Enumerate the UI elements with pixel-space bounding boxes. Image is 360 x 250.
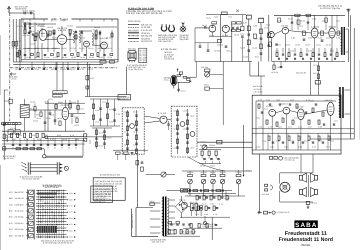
svg-text:5k6 2,2M: 5k6 2,2M — [63, 138, 67, 141]
svg-text:100 5k6: 100 5k6 — [200, 164, 205, 167]
EM84 feed arrow — [189, 80, 191, 82]
tube Rö7 EBF89 IF — [311, 28, 318, 38]
output extra components — [268, 136, 270, 140]
svg-text:470 1M: 470 1M — [10, 127, 17, 130]
svg-text:220: 220 — [69, 229, 73, 232]
wire AM bottom rail — [195, 61, 252, 63]
speaker top rail — [280, 172, 313, 174]
legend row 2 sample wire — [128, 26, 139, 28]
svg-text:8,2 220: 8,2 220 — [70, 47, 76, 50]
svg-text:1n5 4,7k: 1n5 4,7k — [336, 19, 340, 22]
trimmer capacitors tuner input — [24, 26, 27, 28]
electrolytic capacitor C50a — [190, 204, 193, 211]
FM tuner enclosure box — [21, 18, 48, 20]
wire verticals to ratio detector labels — [56, 62, 58, 91]
svg-text:12k 6,8k: 12k 6,8k — [312, 17, 316, 20]
svg-text:Netzkabel 220V: Netzkabel 220V — [131, 213, 134, 228]
svg-text:33k 0,47: 33k 0,47 — [99, 144, 104, 147]
wire pots bottom rail — [185, 195, 245, 197]
legend row 3 sample wire — [128, 29, 139, 31]
svg-text:470 100: 470 100 — [44, 134, 48, 137]
svg-text:47p 220: 47p 220 — [190, 114, 195, 117]
svg-text:100 6,8k: 100 6,8k — [124, 110, 129, 113]
wire EM84 feed from right — [196, 62, 198, 78]
svg-text:EC92 100: EC92 100 — [285, 43, 290, 46]
svg-text:470 100: 470 100 — [298, 125, 302, 128]
svg-text:5k6 8,2: 5k6 8,2 — [255, 55, 259, 58]
svg-text:25µ 8,2: 25µ 8,2 — [278, 125, 282, 128]
IF interstage components — [303, 31, 306, 35]
wire cable to module I — [87, 136, 122, 138]
svg-text:560 560: 560 560 — [217, 44, 223, 47]
tuner lower internal wire — [23, 48, 60, 50]
svg-text:FM - Tuner: FM - Tuner — [52, 17, 69, 21]
svg-text:47p 47p: 47p 47p — [71, 101, 76, 104]
loudspeaker horn bottom-right — [315, 190, 318, 195]
svg-text:560 EC92: 560 EC92 — [264, 26, 268, 29]
wire IF bus line 1 — [13, 61, 118, 63]
capacitor row right of T2 — [232, 26, 234, 28]
svg-text:2,2M: 2,2M — [318, 36, 323, 39]
svg-text:470 5k6: 470 5k6 — [262, 193, 269, 196]
svg-text:6,8k 2,2M: 6,8k 2,2M — [99, 58, 106, 61]
svg-text:470 25µ: 470 25µ — [46, 117, 51, 120]
svg-text:2,2M: 2,2M — [308, 49, 313, 52]
tuner mid extra parts — [49, 31, 51, 35]
svg-text:100 47p: 100 47p — [300, 19, 305, 22]
AVC junction box — [205, 87, 210, 90]
svg-text:25µ 6,8k: 25µ 6,8k — [180, 38, 190, 41]
svg-text:560: 560 — [139, 61, 141, 64]
phono components row1 — [196, 196, 198, 200]
svg-text:2,2M 470: 2,2M 470 — [15, 203, 25, 206]
wire mains feed down — [136, 204, 138, 208]
svg-text:1M 12k: 1M 12k — [31, 134, 35, 137]
components right of legend box — [136, 161, 139, 165]
svg-text:1n5 0,47: 1n5 0,47 — [224, 197, 230, 200]
wire vertical T1 emitter — [220, 15, 222, 62]
wire left rail lower — [3, 90, 5, 160]
coil L1 tuner — [73, 31, 75, 43]
mid-left column components — [47, 100, 49, 131]
IF coil hatched — [20, 105, 29, 118]
svg-text:0,1µ 10n 0,1µ: 0,1µ 10n 0,1µ — [129, 68, 144, 71]
coupling box C1 — [118, 95, 131, 100]
svg-text:0,1µ: 0,1µ — [262, 139, 266, 142]
svg-text:220 5k6: 220 5k6 — [97, 47, 103, 50]
output stage small components — [258, 104, 260, 108]
svg-text:3x 3x 10n: 3x 3x 10n — [15, 210, 24, 213]
wire phono top rail — [188, 193, 236, 195]
svg-text:EC92 470 47p: EC92 470 47p — [128, 20, 141, 23]
switch matrix row terminals — [67, 193, 68, 194]
output top inner wire — [256, 100, 336, 102]
svg-text:33k 1M: 33k 1M — [23, 34, 30, 37]
svg-text:12k: 12k — [9, 203, 13, 206]
svg-text:10n 2,2M: 10n 2,2M — [109, 108, 113, 111]
switch bank rail — [27, 190, 29, 240]
svg-text:560: 560 — [69, 217, 73, 220]
legend row 6 sample wire — [128, 38, 139, 40]
IF second bottom row — [278, 57, 280, 59]
bridge rectifier — [175, 201, 187, 213]
feed line matching boxes — [12, 42, 14, 47]
svg-text:2,2M: 2,2M — [298, 145, 303, 148]
adjustment tool symbol — [180, 26, 186, 32]
svg-text:2,2M 6,8k 0,47: 2,2M 6,8k 0,47 — [92, 201, 105, 204]
wire vertical T2 emitter — [231, 24, 233, 62]
svg-text:0,47 33k: 0,47 33k — [26, 56, 31, 59]
svg-text:100 3x 1M: 100 3x 1M — [271, 71, 278, 74]
svg-text:33k EC92 2,2M: 33k EC92 2,2M — [120, 98, 129, 101]
tuner bottom component row — [17, 53, 19, 57]
svg-text:220 0,1µ: 220 0,1µ — [311, 202, 317, 205]
potentiometer P2 — [201, 179, 206, 184]
svg-text:4,7k: 4,7k — [70, 134, 74, 137]
svg-text:5k6 6,8k: 5k6 6,8k — [94, 26, 100, 29]
wire AM top rail — [206, 14, 246, 16]
svg-text:25µ 1M: 25µ 1M — [220, 171, 227, 174]
tone network cluster — [201, 151, 203, 155]
svg-text:EC92: EC92 — [308, 36, 312, 39]
svg-text:4,7k 10n: 4,7k 10n — [53, 96, 61, 99]
wire AM right vertical — [268, 15, 270, 62]
wire EM84 grid line — [187, 76, 197, 78]
svg-text:5k6 12k: 5k6 12k — [16, 47, 22, 50]
transistor T7 driver — [283, 107, 290, 114]
svg-text:220 3x: 220 3x — [40, 25, 45, 28]
svg-text:8,2 0,1µ: 8,2 0,1µ — [4, 134, 8, 137]
svg-text:6,8k EC92: 6,8k EC92 — [57, 117, 62, 120]
svg-text:5k6 10n: 5k6 10n — [30, 107, 35, 110]
module I col A components — [127, 110, 129, 152]
svg-text:6,8k 0,47 6,8k: 6,8k 0,47 6,8k — [54, 92, 67, 95]
svg-text:100 5k6 0,1µ: 100 5k6 0,1µ — [141, 32, 151, 35]
svg-text:12k 12k: 12k 12k — [183, 127, 188, 130]
svg-text:4,7k: 4,7k — [24, 138, 28, 141]
output transformer — [339, 87, 340, 118]
svg-text:1M 8,2: 1M 8,2 — [247, 13, 252, 16]
electrolytic capacitor C50b — [195, 204, 198, 211]
module II col A components — [177, 109, 179, 154]
svg-text:10n 0,1µ: 10n 0,1µ — [164, 79, 169, 82]
svg-text:220 0,47: 220 0,47 — [294, 116, 298, 119]
svg-text:33k 5k6: 33k 5k6 — [329, 26, 337, 29]
tube can diagram — [128, 50, 136, 53]
svg-text:0,47 3x: 0,47 3x — [48, 98, 53, 101]
AM lower caps — [199, 45, 202, 47]
svg-text:560 10n 6,8k: 560 10n 6,8k — [183, 232, 194, 235]
svg-text:6,8k 12k: 6,8k 12k — [325, 99, 333, 102]
wire loop module to controls — [188, 157, 225, 171]
AM antenna terminal right — [347, 9, 349, 14]
mid second row components — [12, 144, 14, 146]
B+ top rail — [167, 190, 233, 192]
capacitor ratio det 1 — [44, 121, 47, 123]
svg-text:220 5k6: 220 5k6 — [209, 144, 215, 147]
svg-text:100 3x: 100 3x — [322, 19, 326, 22]
svg-text:25µ 10n: 25µ 10n — [326, 43, 331, 46]
svg-text:EC92 2,2M: EC92 2,2M — [277, 66, 282, 69]
svg-text:8,2 6,8k: 8,2 6,8k — [133, 143, 138, 146]
svg-text:1n5 5k6 25µ 33k: 1n5 5k6 25µ 33k — [92, 198, 105, 201]
svg-text:3x 470: 3x 470 — [79, 47, 85, 50]
svg-text:EC92 4,7k 4,7k 10n: EC92 4,7k 4,7k 10n — [92, 190, 110, 193]
svg-text:0,1µ 12k: 0,1µ 12k — [61, 47, 67, 50]
svg-text:0,47 8,2: 0,47 8,2 — [124, 130, 129, 133]
svg-text:560 470 EC92 6,8k 6,8k: 560 470 EC92 6,8k 6,8k — [92, 188, 110, 191]
svg-text:0,47: 0,47 — [243, 21, 247, 24]
svg-text:3x 33k: 3x 33k — [200, 144, 206, 147]
svg-text:0,47: 0,47 — [312, 145, 316, 148]
DIN loudspeaker sockets below box — [269, 157, 272, 160]
connector bars right — [56, 162, 58, 174]
svg-text:6,8k: 6,8k — [256, 145, 260, 148]
wire pot feed lines — [189, 171, 191, 175]
wire DIN leads — [30, 163, 57, 165]
wire output box bottom rail — [310, 138, 354, 140]
svg-text:-Stereo-: -Stereo- — [300, 243, 311, 247]
legend row 4 sample wire — [128, 32, 139, 34]
coil AM oscillator box — [222, 12, 228, 15]
tube EM84 tuning indicator — [171, 75, 177, 85]
wire horn column — [307, 175, 309, 197]
resistor R em3 — [183, 76, 187, 78]
transistor T2 AM oscillator — [222, 25, 229, 32]
svg-text:25µ 4,7k: 25µ 4,7k — [264, 107, 268, 110]
svg-text:5k6 470: 5k6 470 — [288, 17, 293, 20]
wire phono mid rail — [180, 216, 230, 218]
wire mains to transformer — [136, 207, 153, 209]
svg-text:1n5 1n5: 1n5 1n5 — [228, 15, 232, 18]
capacitors beside Ro1 — [28, 32, 30, 34]
wire into box top — [309, 62, 311, 96]
svg-text:100 1M: 100 1M — [174, 109, 179, 112]
svg-text:0,1µ 33k: 0,1µ 33k — [16, 39, 21, 42]
svg-text:3x 220: 3x 220 — [243, 55, 248, 58]
svg-text:6,8k 4,7k: 6,8k 4,7k — [181, 89, 186, 92]
svg-text:0,1µ 47p: 0,1µ 47p — [259, 17, 265, 20]
svg-text:1M 1n5: 1M 1n5 — [290, 49, 294, 52]
svg-text:220 0,1µ: 220 0,1µ — [88, 47, 94, 50]
svg-text:5k6 1M: 5k6 1M — [202, 202, 206, 205]
IF extra parts top — [278, 18, 281, 22]
svg-text:560 4,7k: 560 4,7k — [288, 125, 292, 128]
AF coupling row — [2, 148, 44, 150]
svg-text:0,1µ 0,1µ: 0,1µ 0,1µ — [206, 16, 211, 19]
svg-text:EC92 5k6: EC92 5k6 — [58, 101, 63, 104]
SABA logo black box — [294, 220, 317, 228]
svg-text:47p 3x: 47p 3x — [133, 130, 138, 133]
AM ganged capacitor arrow — [236, 10, 239, 12]
IF output transformer — [341, 27, 342, 55]
capacitor T5 out — [167, 123, 169, 125]
switch matrix vertical dashed wires — [37, 190, 39, 238]
svg-text:47p 33k: 47p 33k — [37, 138, 41, 141]
svg-text:3x 2,2M: 3x 2,2M — [53, 56, 58, 59]
IF extra verticals — [291, 15, 293, 30]
svg-text:1M 220 25µ: 1M 220 25µ — [15, 228, 25, 231]
svg-text:0,47: 0,47 — [50, 138, 54, 141]
svg-text:470: 470 — [69, 223, 73, 226]
ratio det extra parts — [34, 107, 36, 111]
wire phono vertical — [211, 217, 213, 240]
bus stubs with caps — [19, 62, 21, 69]
svg-text:10n 1n5: 10n 1n5 — [195, 213, 199, 216]
resistor R em2 — [177, 75, 180, 77]
DIN socket body bars — [27, 162, 29, 174]
svg-text:1n5 33k: 1n5 33k — [281, 25, 288, 28]
svg-text:1M 0,1µ: 1M 0,1µ — [226, 49, 231, 52]
wire speaker drop left — [259, 154, 261, 213]
svg-text:0,47 0,1µ: 0,47 0,1µ — [313, 64, 318, 67]
module box I dashed — [122, 108, 144, 154]
svg-text:6,8k EC92 EC92: 6,8k EC92 EC92 — [141, 40, 153, 43]
svg-text:12k 1M: 12k 1M — [174, 146, 179, 149]
wire AM lower rails — [2, 130, 85, 132]
svg-text:5k6 25µ: 5k6 25µ — [128, 48, 137, 51]
resistor AF bus — [217, 140, 222, 144]
svg-text:0,47 5k6 47p 1n5 12k 0,1µ 6,8k: 0,47 5k6 47p 1n5 12k 0,1µ 6,8k — [95, 180, 122, 183]
volume pot on drop — [205, 72, 210, 77]
label box Ratio-Detektor — [53, 91, 67, 94]
resistor row lower-left — [11, 133, 13, 137]
EM84 anode feed arrow — [177, 69, 179, 72]
svg-text:12k 33k: 12k 33k — [295, 43, 300, 46]
tuner upper-left parts — [24, 25, 26, 27]
AM mid horizontal wires — [209, 36, 232, 38]
output stage wires — [276, 111, 283, 113]
svg-text:4,7k EC92 25µ 12k EC92 3x 3x: 4,7k EC92 25µ 12k EC92 3x 3x — [43, 242, 72, 245]
phono components row2 — [192, 207, 195, 209]
legend row 1 sample wire — [128, 24, 139, 26]
wire T5 to module II — [167, 119, 171, 121]
tube Rö5 EBF89 demodulator — [62, 107, 69, 119]
svg-text:4,7k: 4,7k — [268, 125, 272, 128]
module box II dashed — [171, 106, 197, 157]
shielded cable AF link — [48, 136, 84, 138]
cable junction boxes — [84, 134, 87, 137]
svg-text:4,7k: 4,7k — [9, 222, 13, 225]
shielded cable to amplifier — [46, 155, 83, 157]
tuner extra verticals — [37, 30, 39, 52]
module II transistors — [180, 122, 185, 127]
svg-text:EC92 1n5: EC92 1n5 — [42, 68, 48, 71]
plug circle — [64, 166, 68, 170]
svg-text:1M 33k: 1M 33k — [35, 56, 40, 59]
wire speaker feeds — [300, 154, 302, 173]
label T1 box — [212, 22, 217, 24]
svg-text:1M 2,2M 12k: 1M 2,2M 12k — [254, 88, 262, 91]
AM ferrite antenna terminal — [10, 73, 16, 75]
transistor T1 AM mixer — [209, 25, 216, 32]
coil L3 tuner — [92, 33, 94, 45]
tuner top edge stubs — [22, 19, 24, 22]
svg-text:25µ 2,2M: 25µ 2,2M — [17, 56, 22, 59]
components above legend box — [116, 152, 121, 154]
IF mid wires — [289, 31, 312, 33]
ferrite core symbol 2 — [169, 27, 175, 32]
svg-text:220 8,2: 220 8,2 — [87, 68, 93, 71]
svg-text:5k6 10n 12k EC92 12k 1n5 6,8k: 5k6 10n 12k EC92 12k 1n5 6,8k — [95, 182, 122, 185]
svg-text:33k 4,7k: 33k 4,7k — [102, 100, 106, 103]
svg-text:4,7k 6,8k 0,1µ: 4,7k 6,8k 0,1µ — [285, 159, 295, 162]
wire output box internal rails — [252, 128, 354, 130]
svg-text:2,2M EC92: 2,2M EC92 — [67, 24, 73, 27]
svg-text:8,2 1M 560 47p 0,47: 8,2 1M 560 47p 0,47 — [43, 185, 63, 188]
wire right verticals — [347, 29, 349, 62]
AM coil boxes under rod — [8, 130, 13, 134]
svg-text:10n 3x: 10n 3x — [99, 131, 104, 134]
svg-text:25µ 100: 25µ 100 — [124, 143, 129, 146]
switch bank contact boxes — [29, 190, 34, 194]
resistor left chain — [86, 76, 89, 80]
phono label box — [180, 189, 189, 192]
wire IF bus line 2 — [13, 63, 103, 65]
wire IF top rail — [274, 14, 345, 16]
svg-text:47p 220: 47p 220 — [266, 23, 270, 26]
svg-text:3x 220 0,47 25µ 25µ: 3x 220 0,47 25µ 25µ — [320, 7, 341, 10]
svg-text:4,7k 100: 4,7k 100 — [158, 112, 167, 115]
module I col B components — [136, 110, 138, 152]
svg-text:2,2M 6,8k: 2,2M 6,8k — [80, 36, 85, 39]
heater circuit components — [163, 235, 200, 237]
svg-text:100 10n 25µ: 100 10n 25µ — [15, 216, 25, 219]
tube Rö9 EL95 output 1 — [298, 109, 305, 120]
wire antenna feed lines left of tuner — [12, 19, 14, 62]
legend row 5 sample wire — [128, 35, 139, 37]
fuse Si mains — [150, 203, 155, 206]
wire right AM drops — [260, 76, 262, 95]
svg-text:1M 220 0,47: 1M 220 0,47 — [281, 102, 288, 105]
transistor T6 phase splitter — [269, 109, 276, 116]
svg-text:0,47: 0,47 — [12, 138, 16, 141]
svg-text:3x 5k6: 3x 5k6 — [270, 145, 274, 148]
svg-text:10n 6,8k: 10n 6,8k — [22, 10, 28, 13]
svg-text:0,1µ 100: 0,1µ 100 — [30, 100, 35, 103]
svg-text:6,8k: 6,8k — [253, 24, 257, 27]
svg-text:100 10n: 100 10n — [299, 24, 303, 27]
legend row 7 sample wire — [128, 40, 139, 42]
svg-text:4,7k 10n 470: 4,7k 10n 470 — [141, 29, 153, 32]
potentiometer P1 — [188, 179, 193, 184]
svg-text:6,8k 100: 6,8k 100 — [71, 56, 76, 59]
svg-text:4,7k 2,2M 1M 100: 4,7k 2,2M 1M 100 — [92, 196, 105, 199]
svg-text:33k 1M 2,2M: 33k 1M 2,2M — [296, 72, 306, 75]
switch matrix horizontal wires — [36, 190, 67, 192]
potentiometer mains — [161, 172, 166, 177]
svg-text:220 6,8k: 220 6,8k — [275, 49, 279, 52]
svg-text:220 0,47: 220 0,47 — [90, 77, 94, 80]
svg-text:5k6 5k6: 5k6 5k6 — [57, 134, 61, 137]
wire round speaker stubs — [279, 173, 281, 184]
svg-text:0,1µ 33k: 0,1µ 33k — [252, 46, 257, 49]
svg-text:1M 470 0,47 220 33k: 1M 470 0,47 220 33k — [22, 178, 39, 181]
fuse legend box — [93, 178, 125, 201]
potentiometer P5 — [236, 179, 241, 184]
power transformer core — [163, 197, 165, 237]
svg-text:560 5k6: 560 5k6 — [18, 134, 22, 137]
loudspeaker horn top-right — [315, 175, 318, 180]
dash-dot chassis line left — [9, 13, 11, 121]
IF bottom row components — [272, 61, 345, 63]
svg-text:1M 8,2: 1M 8,2 — [36, 113, 40, 116]
capacitor AM coupling — [204, 26, 206, 29]
wire AM-IF link corner — [249, 62, 251, 77]
wire AVC arrow drop — [243, 125, 245, 176]
power transformer secondary winding — [167, 198, 169, 235]
ferrite rod antenna — [2, 123, 22, 125]
